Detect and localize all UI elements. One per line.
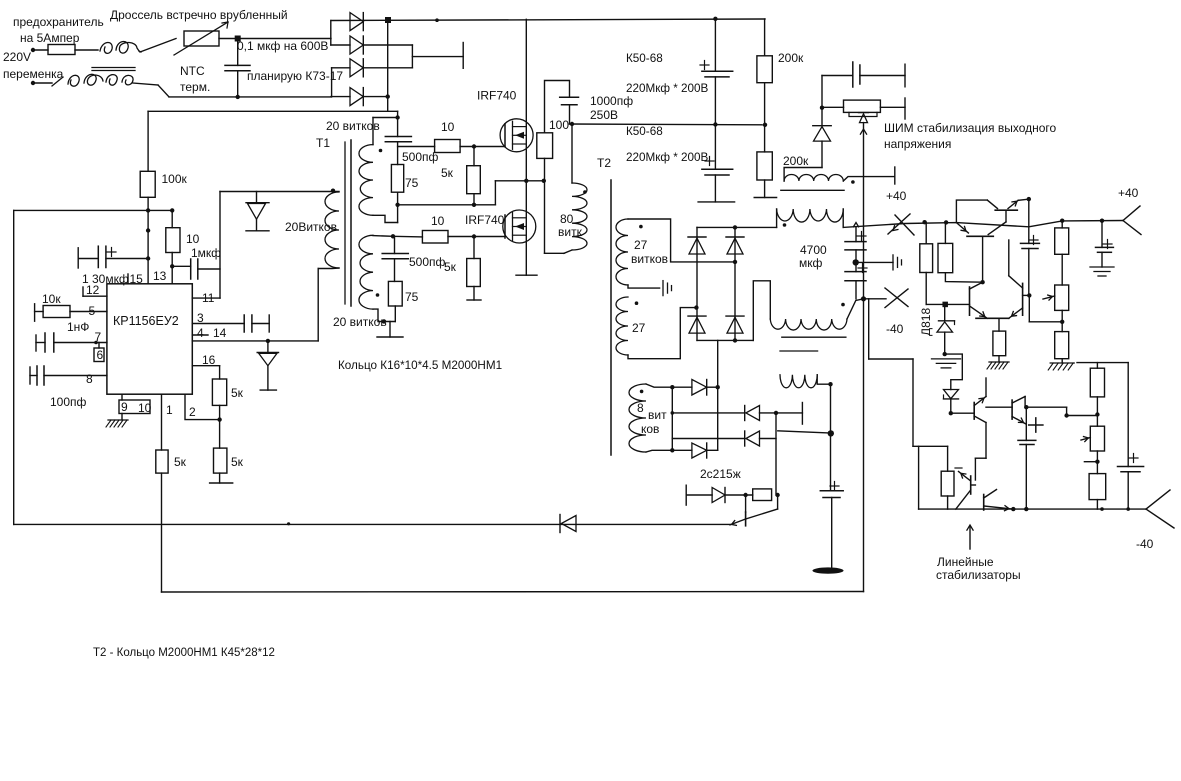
- svg-text:500пф: 500пф: [402, 150, 439, 164]
- svg-text:Дроссель встречно врубленный: Дроссель встречно врубленный: [110, 8, 288, 22]
- svg-text:100пф: 100пф: [50, 395, 87, 409]
- svg-text:5к: 5к: [231, 455, 244, 469]
- svg-text:терм.: терм.: [180, 80, 210, 94]
- svg-text:Т1: Т1: [316, 136, 330, 150]
- svg-text:10: 10: [441, 120, 455, 134]
- svg-text:4700: 4700: [800, 243, 827, 257]
- svg-text:10к: 10к: [42, 292, 61, 306]
- svg-text:100: 100: [549, 118, 569, 132]
- svg-text:12: 12: [86, 283, 100, 297]
- svg-text:NTC: NTC: [180, 64, 205, 78]
- svg-text:220Мкф * 200В: 220Мкф * 200В: [626, 82, 709, 95]
- svg-text:1: 1: [166, 403, 173, 417]
- svg-text:-40: -40: [1136, 537, 1154, 551]
- svg-text:КР1156ЕУ2: КР1156ЕУ2: [113, 314, 179, 328]
- svg-text:5к: 5к: [231, 386, 244, 400]
- svg-text:1нФ: 1нФ: [67, 320, 89, 334]
- svg-text:ШИМ стабилизация выходного: ШИМ стабилизация выходного: [884, 121, 1057, 135]
- svg-text:2с215ж: 2с215ж: [700, 467, 741, 481]
- svg-text:витк: витк: [558, 225, 583, 239]
- svg-text:вит: вит: [648, 408, 667, 422]
- svg-text:5к: 5к: [174, 455, 187, 469]
- svg-text:5к: 5к: [444, 260, 457, 274]
- svg-text:переменка: переменка: [3, 67, 64, 81]
- svg-text:IRF740: IRF740: [465, 213, 505, 227]
- svg-text:11: 11: [202, 291, 215, 305]
- svg-text:20 витков: 20 витков: [333, 315, 387, 329]
- svg-text:10: 10: [138, 401, 152, 415]
- svg-text:витков: витков: [631, 252, 668, 266]
- svg-text:27: 27: [632, 321, 646, 335]
- svg-text:20 витков: 20 витков: [326, 119, 380, 133]
- svg-text:предохранитель: предохранитель: [13, 15, 104, 29]
- svg-text:напряжения: напряжения: [884, 137, 951, 151]
- svg-text:5к: 5к: [441, 166, 454, 180]
- svg-text:2: 2: [189, 405, 196, 419]
- svg-text:27: 27: [634, 238, 648, 252]
- svg-text:-40: -40: [886, 322, 904, 336]
- svg-text:1000пф: 1000пф: [590, 94, 633, 108]
- svg-text:IRF740: IRF740: [477, 89, 517, 103]
- svg-text:200к: 200к: [778, 51, 804, 65]
- svg-text:0,1 мкф на 600В: 0,1 мкф на 600В: [237, 39, 328, 53]
- svg-text:13: 13: [153, 269, 167, 283]
- svg-text:220Мкф * 200В: 220Мкф * 200В: [626, 151, 709, 164]
- svg-text:250В: 250В: [590, 108, 618, 122]
- svg-text:+40: +40: [886, 189, 907, 203]
- svg-text:Линейные: Линейные: [937, 555, 994, 569]
- svg-text:200к: 200к: [783, 154, 809, 168]
- svg-text:Д818: Д818: [919, 308, 933, 336]
- svg-text:Т2: Т2: [597, 156, 611, 170]
- svg-text:100к: 100к: [162, 172, 188, 186]
- svg-text:20Витков: 20Витков: [285, 220, 337, 234]
- svg-text:Т2 - Кольцо М2000НМ1 К45*28*1: Т2 - Кольцо М2000НМ1 К45*28*12: [93, 647, 275, 659]
- svg-text:К50-68: К50-68: [626, 125, 663, 138]
- svg-text:16: 16: [202, 353, 216, 367]
- svg-text:планирую К73-17: планирую К73-17: [247, 69, 343, 83]
- svg-text:80: 80: [560, 212, 574, 226]
- svg-text:10: 10: [186, 232, 200, 246]
- svg-text:4: 4: [197, 326, 204, 340]
- svg-text:Кольцо К16*10*4.5 М2000НМ1: Кольцо К16*10*4.5 М2000НМ1: [338, 359, 502, 372]
- svg-text:10: 10: [431, 214, 445, 228]
- svg-text:+40: +40: [1118, 186, 1139, 200]
- svg-text:на 5Ампер: на 5Ампер: [20, 31, 80, 45]
- svg-text:9: 9: [121, 400, 128, 414]
- svg-text:8: 8: [637, 401, 644, 415]
- svg-text:ков: ков: [641, 422, 659, 436]
- svg-text:1мкф: 1мкф: [191, 246, 221, 260]
- svg-text:6: 6: [97, 348, 104, 362]
- svg-text:75: 75: [405, 176, 419, 190]
- svg-text:К50-68: К50-68: [626, 52, 663, 65]
- svg-text:14: 14: [213, 326, 227, 340]
- svg-text:стабилизаторы: стабилизаторы: [936, 568, 1021, 582]
- svg-text:8: 8: [86, 372, 93, 386]
- svg-text:75: 75: [405, 290, 419, 304]
- svg-text:мкф: мкф: [799, 256, 823, 270]
- svg-text:500пф: 500пф: [409, 255, 446, 269]
- svg-text:220V: 220V: [3, 50, 31, 64]
